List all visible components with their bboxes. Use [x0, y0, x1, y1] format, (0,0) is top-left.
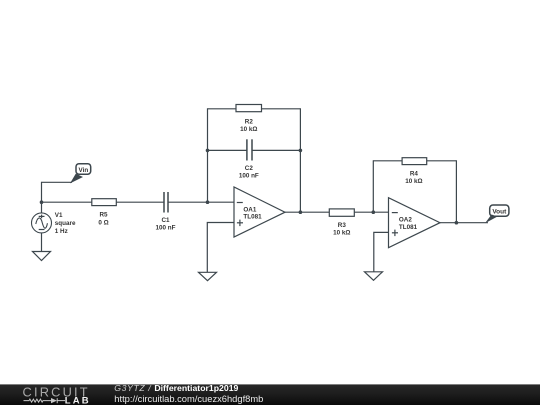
svg-text:R5: R5: [99, 211, 108, 218]
ground below V1: [33, 252, 51, 261]
svg-text:http://circuitlab.com/cuezx6hd: http://circuitlab.com/cuezx6hdgf8mb: [114, 394, 263, 404]
svg-text:C2: C2: [245, 165, 254, 172]
resistor R5 body: [92, 199, 117, 206]
wire feedback top R4 right: [427, 160, 457, 162]
svg-text:100 nF: 100 nF: [156, 224, 176, 231]
svg-text:TL081: TL081: [243, 214, 262, 221]
svg-text:10 kΩ: 10 kΩ: [240, 126, 257, 133]
svg-text:square: square: [55, 220, 76, 227]
junction node OA1 input / feedback: [206, 200, 210, 204]
svg-text:10 kΩ: 10 kΩ: [405, 178, 422, 185]
svg-text:OA1: OA1: [243, 206, 256, 213]
capacitor C2 plates: [246, 139, 248, 160]
svg-text:R3: R3: [338, 222, 347, 229]
net flag Vout box: [490, 205, 509, 216]
svg-text:0 Ω: 0 Ω: [98, 220, 108, 227]
wire feedback top R4 left: [373, 160, 402, 162]
OA1 minus pin mark: [237, 202, 243, 204]
svg-text:C1: C1: [161, 217, 170, 224]
wire feedback top R2 right: [262, 108, 301, 110]
wire V1 top lead: [41, 202, 43, 213]
svg-text:V1: V1: [55, 212, 63, 219]
ground below OA1: [199, 272, 217, 280]
V1 minus mark: [39, 229, 45, 231]
V1 plus mark: [39, 215, 45, 217]
junction node OA2 input / R4: [372, 210, 376, 214]
footer bar: [0, 384, 540, 405]
wire Vin branch vertical: [41, 182, 43, 202]
junction node C2 left: [206, 149, 210, 153]
junction node OA1 output / feedback: [299, 210, 303, 214]
op-amp OA1 triangle: [234, 187, 285, 237]
wire feedback top R2 left: [208, 108, 237, 110]
ground below OA2: [365, 272, 383, 281]
OA1 plus pin mark: [237, 222, 243, 224]
wire C2 branch left: [208, 149, 247, 151]
wire OA2 plus input to ground branch: [374, 232, 389, 271]
wire Vin branch horizontal: [42, 181, 73, 183]
wire input net from V1 to R5: [42, 201, 92, 203]
CircuitLab logo resistor-diode wire: [24, 398, 66, 403]
svg-text:10 kΩ: 10 kΩ: [333, 229, 350, 236]
resistor R3 body: [329, 209, 354, 216]
svg-text:OA2: OA2: [399, 217, 412, 224]
wire OA1 output to R3: [285, 211, 329, 213]
wire feedback left vertical OA2: [372, 160, 374, 212]
resistor R2 body: [236, 105, 262, 112]
svg-text:Vin: Vin: [79, 167, 89, 174]
OA2 plus pin mark: [392, 232, 398, 234]
svg-text:TL081: TL081: [399, 224, 418, 231]
svg-text:100 nF: 100 nF: [239, 173, 259, 180]
svg-text:R2: R2: [245, 119, 254, 126]
wire C2 branch right: [252, 149, 300, 151]
OA2 minus pin mark: [392, 212, 398, 214]
svg-text:R4: R4: [410, 171, 419, 178]
wire R3 to OA2 minus input: [354, 211, 388, 213]
voltage source V1 circle: [32, 213, 52, 233]
junction node C2 right: [299, 149, 303, 153]
wire feedback right vertical OA2: [455, 160, 457, 222]
junction node V1/Vin: [40, 200, 44, 204]
wire C1 to OA1 minus input: [168, 201, 234, 203]
svg-text:G3YTZ / Differentiator1p2019: G3YTZ / Differentiator1p2019: [114, 383, 238, 393]
wire OA2 output to Vout: [440, 222, 488, 224]
junction node OA2 output / R4: [455, 221, 459, 225]
svg-text:Vout: Vout: [492, 209, 507, 216]
capacitor C1 plates: [163, 192, 165, 213]
op-amp OA2 triangle: [389, 198, 441, 248]
net flag Vin box: [76, 164, 91, 175]
svg-text:LAB: LAB: [65, 395, 91, 405]
wire V1 bottom lead to ground: [41, 233, 43, 252]
V1 sine glyph: [36, 218, 48, 228]
net flag Vin tail: [70, 174, 83, 184]
resistor R4 body: [402, 158, 427, 165]
wire feedback left vertical OA1: [207, 108, 209, 202]
wire R5 to C1: [116, 201, 164, 203]
svg-text:1 Hz: 1 Hz: [55, 228, 68, 235]
net flag Vout tail: [485, 215, 498, 224]
wire OA1 plus input to ground branch: [207, 223, 234, 273]
wire feedback right vertical OA1: [299, 108, 301, 212]
